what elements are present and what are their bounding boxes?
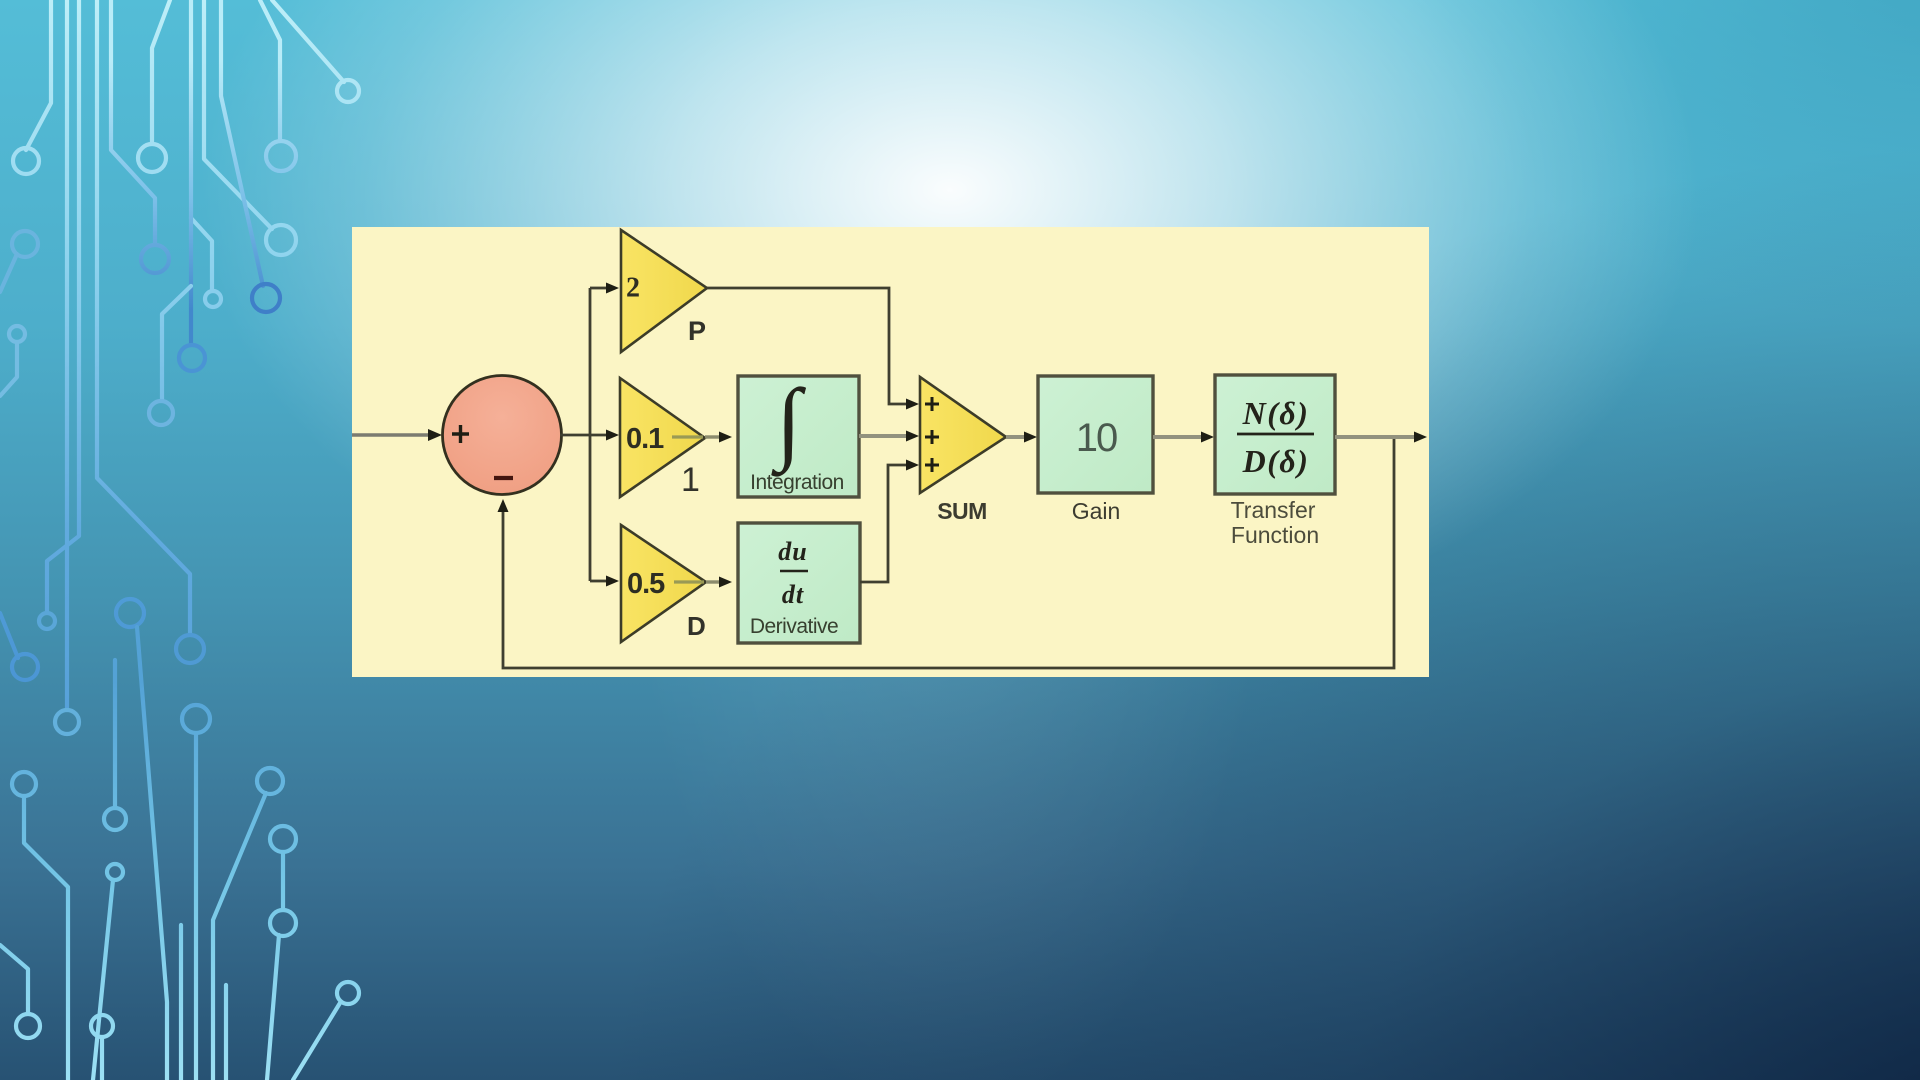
svg-text:Integration: Integration: [750, 471, 844, 494]
svg-text:du: du: [778, 537, 807, 566]
wire: sum output to branch: [560, 288, 606, 581]
summing junction: [443, 376, 562, 495]
wire: branch vertical: [589, 288, 592, 581]
wire: integration output to SUM: [859, 434, 906, 438]
svg-text:N(δ): N(δ): [1242, 395, 1310, 431]
svg-text:0.1: 0.1: [626, 423, 664, 455]
diagram panel: [352, 227, 1429, 677]
svg-text:Derivative: Derivative: [750, 615, 838, 638]
svg-text:∫: ∫: [771, 370, 806, 477]
svg-text:SUM: SUM: [937, 498, 987, 524]
gain triangle I (0.1): [620, 378, 705, 497]
wire: dash inside I triangle: [672, 435, 703, 438]
wire: output from transfer function: [1335, 435, 1414, 439]
transfer function block: [1215, 375, 1335, 494]
wire: P path over the top to SUM: [707, 288, 906, 404]
decorative circuit traces (left): [0, 0, 359, 1080]
wire: I apex to integration block: [705, 435, 719, 438]
svg-text:Gain: Gain: [1072, 498, 1121, 524]
wire: input into summing junction: [352, 433, 428, 436]
sum triangle: [920, 377, 1006, 493]
svg-text:D: D: [687, 611, 706, 641]
svg-text:Transfer: Transfer: [1231, 497, 1316, 523]
integration block: [738, 376, 859, 497]
svg-text:0.5: 0.5: [627, 568, 665, 600]
wire: stub to P gain: [590, 287, 606, 290]
svg-text:2: 2: [626, 273, 640, 304]
minus sign in summing junction: [494, 476, 513, 480]
wire: stub to D gain: [590, 580, 606, 583]
gain block 10: [1038, 376, 1153, 493]
wire: dash inside D triangle: [674, 580, 704, 583]
svg-text:dt: dt: [782, 580, 804, 609]
svg-text:Function: Function: [1231, 522, 1319, 548]
gain triangle P: [621, 230, 707, 352]
svg-text:D(δ): D(δ): [1242, 443, 1310, 479]
wire: D path from derivative up to SUM: [860, 465, 906, 582]
wire: SUM to gain block: [1006, 435, 1024, 439]
wire: gain to transfer function: [1153, 435, 1201, 439]
svg-text:10: 10: [1076, 416, 1117, 460]
derivative block: [738, 523, 860, 643]
wire: D apex to derivative block: [706, 580, 719, 583]
svg-text:P: P: [688, 316, 706, 346]
gain triangle D (0.5): [621, 525, 706, 642]
plus sign in summing junction: [452, 425, 469, 443]
svg-text:1: 1: [681, 461, 700, 499]
wire: feedback loop: [503, 439, 1394, 668]
